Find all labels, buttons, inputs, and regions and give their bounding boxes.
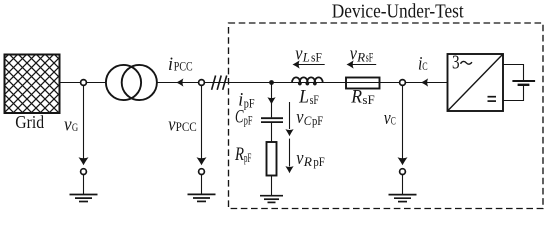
svg-text:3: 3 [452,53,460,74]
svg-text:L: L [298,86,309,107]
svg-text:pF: pF [244,112,253,127]
svg-text:pF: pF [312,113,323,128]
svg-text:sF: sF [311,49,322,64]
svg-text:Device-Under-Test: Device-Under-Test [332,1,464,22]
svg-text:v: v [64,114,72,135]
svg-text:R: R [350,86,362,107]
svg-text:G: G [72,120,79,134]
svg-text:R: R [303,154,312,169]
svg-text:C: C [304,113,312,128]
svg-text:pF: pF [244,150,251,165]
svg-text:sF: sF [310,92,319,107]
svg-text:pF: pF [244,95,255,110]
svg-text:Grid: Grid [15,112,44,132]
svg-text:L: L [302,49,310,64]
svg-text:R: R [356,49,365,64]
svg-text:R: R [234,144,244,165]
svg-text:sF: sF [366,49,374,64]
svg-text:pF: pF [313,154,324,169]
svg-text:C: C [422,59,427,73]
svg-text:PCC: PCC [174,58,193,73]
svg-text:C: C [391,114,396,128]
svg-text:sF: sF [362,92,374,107]
svg-text:PCC: PCC [176,119,197,134]
svg-text:C: C [235,107,244,128]
svg-text:i: i [168,54,173,75]
